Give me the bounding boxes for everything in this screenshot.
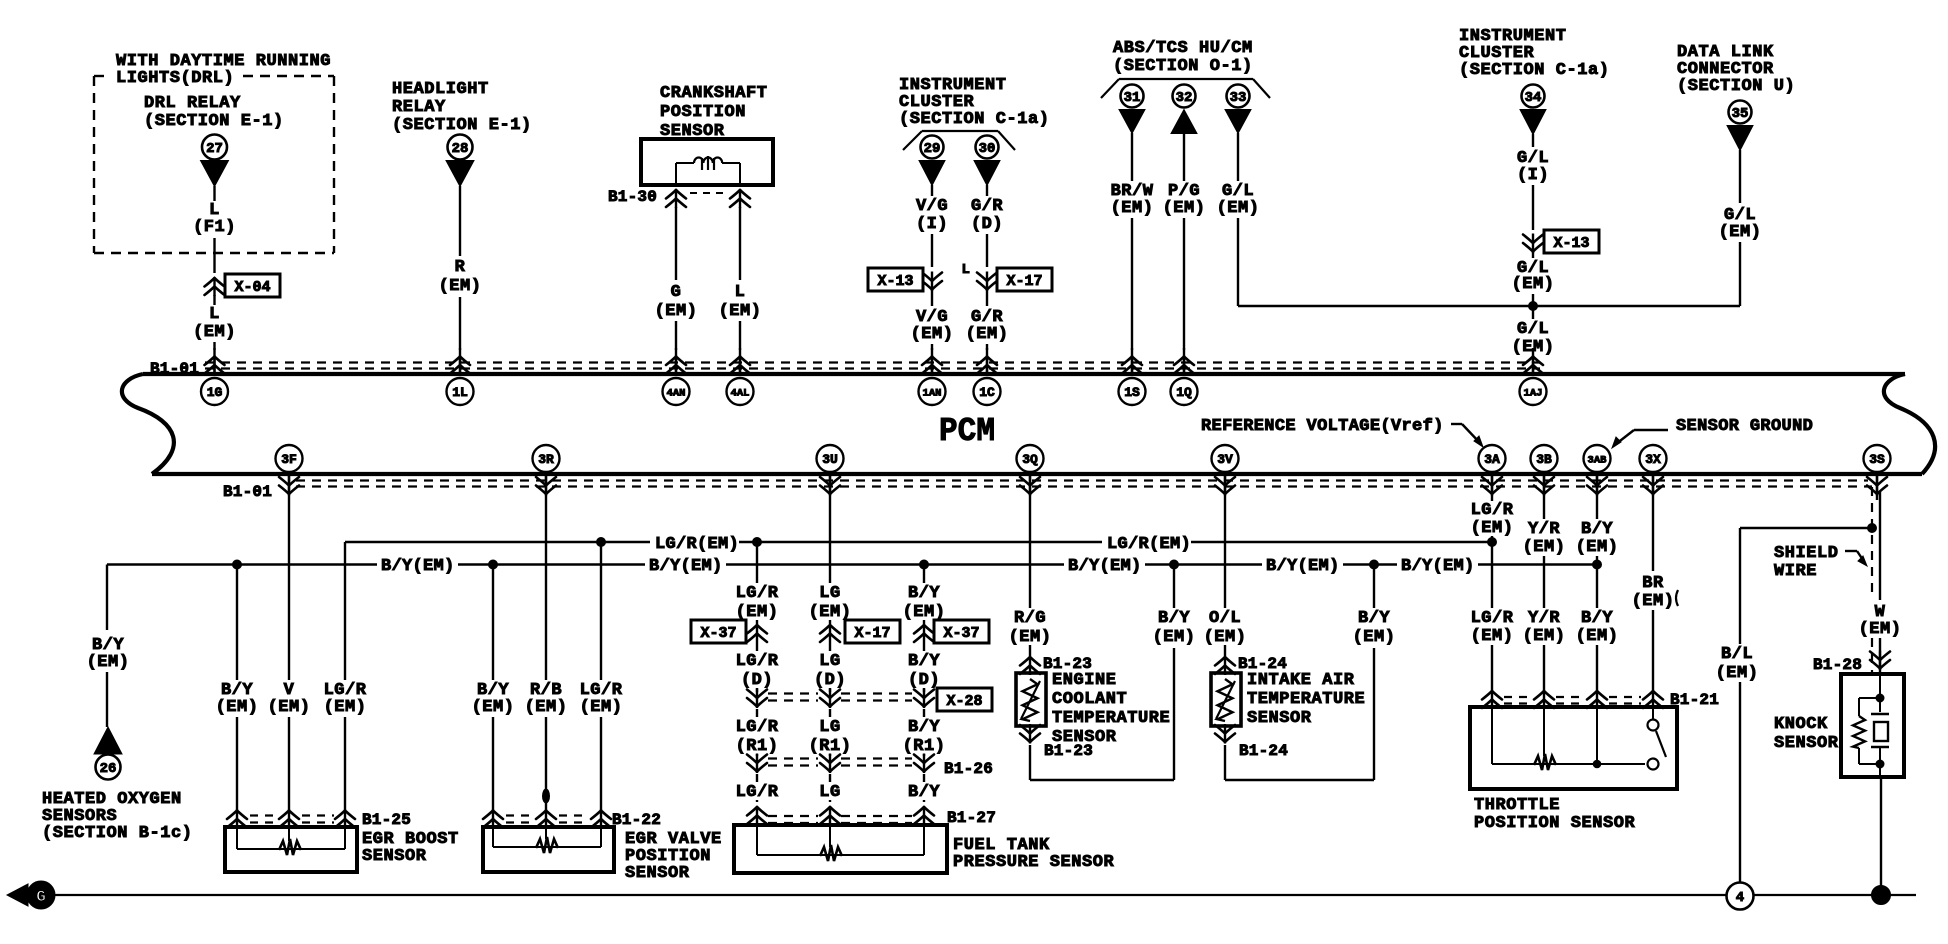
svg-text:B/Y: B/Y [908,652,940,671]
junction B/Y bus to TPS wire 3AB [1593,560,1602,569]
node 3R (PCM pin) [533,445,560,500]
svg-text:B1-26: B1-26 [944,760,993,778]
svg-text:(R1): (R1) [809,737,852,756]
connector X-04 [205,274,281,297]
svg-text:(EM): (EM) [719,302,762,321]
svg-text:REFERENCE VOLTAGE(Vref): REFERENCE VOLTAGE(Vref) [1201,417,1444,436]
svg-text:LG: LG [819,718,840,737]
svg-text:SHIELD: SHIELD [1774,544,1839,563]
svg-text:3A: 3A [1484,452,1500,467]
svg-text:1Q: 1Q [1176,385,1192,400]
intake air temperature sensor box [1211,673,1241,726]
wire G/R(EM) to PCM pin 1C [966,290,1009,350]
junction B/Y bus to EGR valve sensor [489,560,498,569]
svg-text:(EM): (EM) [1204,628,1247,647]
svg-text:(EM): (EM) [525,698,568,717]
junction LG/R bus to EGR valve sensor [597,538,606,547]
svg-text:(SECTION E-1): (SECTION E-1) [392,116,532,135]
wire G(EM) to PCM pin 4AN [655,207,698,350]
svg-text:G/R: G/R [971,197,1003,216]
wire G/L(EM) to PCM pin 1AJ [1512,306,1555,357]
svg-text:R/G: R/G [1014,609,1046,628]
connector B1-21 [1482,690,1719,709]
node 27 (DRL relay terminal) [201,135,229,187]
svg-text:1C: 1C [979,385,995,400]
svg-text:SENSOR: SENSOR [1247,709,1312,728]
svg-text:29: 29 [924,141,941,157]
svg-text:1L: 1L [452,385,468,400]
svg-text:CRANKSHAFT: CRANKSHAFT [660,84,768,103]
svg-text:B/L: B/L [1721,645,1753,664]
wire LG segment into sensor [819,774,840,802]
wire LG/R(R1) segment [736,709,779,756]
svg-text:HEADLIGHT: HEADLIGHT [392,80,489,99]
wire BR(EM) from PCM pin 3X [1632,500,1678,694]
svg-text:(EM): (EM) [1523,627,1566,646]
wire G/L(EM) to junction [1512,252,1555,306]
svg-text:(EM): (EM) [1153,628,1196,647]
junction B/Y bus to fuel tank pressure sensor [920,560,929,569]
svg-text:L: L [735,283,746,302]
svg-text:(F1): (F1) [193,218,236,237]
connector B1-23 (top) [1020,655,1092,675]
wire B/Y(EM) bus to EGR valve position sensor [472,565,515,811]
svg-text:BR: BR [1642,574,1664,593]
svg-text:1AN: 1AN [923,387,942,399]
svg-text:1S: 1S [1124,385,1140,400]
node 1L (PCM pin) [447,348,474,405]
wire LG/R(EM) bus [345,535,1492,554]
wire V/G(EM) to PCM pin 1AN [911,290,954,350]
svg-text:LG/R: LG/R [1471,501,1514,520]
svg-text:26: 26 [100,761,117,777]
connector B1-24 (top) [1215,655,1287,675]
svg-text:B1-23: B1-23 [1044,742,1093,760]
svg-text:(EM): (EM) [324,698,367,717]
connector X-37 (right) [914,620,989,643]
wire B/Y(EM) from bus to fuel tank pressure sensor [903,565,946,625]
svg-text:B1-01: B1-01 [223,483,272,501]
connector B1-30 [608,188,750,208]
svg-text:3B: 3B [1536,452,1552,467]
node 30 (instrument cluster terminal) [974,136,1000,186]
svg-text:(EM): (EM) [1859,620,1902,639]
connector X-13 on V/G wire [868,268,942,291]
node 3B (PCM pin) [1531,445,1558,500]
node 34 (instrument cluster terminal) [1520,85,1546,135]
wire LG/R(EM) from PCM pin 3A [1471,500,1514,694]
svg-text:X-17: X-17 [1006,273,1042,290]
connector B1-24 (bottom) [1215,724,1288,760]
wire B/Y(R1) segment [903,709,946,756]
svg-text:B/Y: B/Y [908,718,940,737]
wire L(EM) to PCM pin 1G [193,295,236,350]
svg-text:(EM): (EM) [1512,338,1555,357]
svg-text:4AL: 4AL [731,387,750,399]
wire B/L(EM) to ground [1716,528,1872,882]
svg-text:ABS/TCS HU/CM: ABS/TCS HU/CM [1113,39,1253,58]
svg-text:B/Y: B/Y [908,584,940,603]
node 3U (PCM pin) [817,445,844,500]
svg-text:LG/R: LG/R [736,652,779,671]
wire B/Y(EM) bus to EGR boost sensor [216,565,259,811]
wire from ECT sensor to B/Y bus [1030,565,1195,781]
wire G/L(I) from 34 [1517,134,1549,230]
junction LG/R bus to fuel tank pressure sensor [753,538,762,547]
svg-text:(EM): (EM) [268,698,311,717]
svg-text:(EM): (EM) [1576,538,1619,557]
svg-text:3R: 3R [538,452,554,467]
svg-text:27: 27 [206,141,223,157]
svg-text:B/Y: B/Y [1158,609,1190,628]
svg-text:(EM): (EM) [1576,627,1619,646]
svg-text:POSITION SENSOR: POSITION SENSOR [1474,814,1636,833]
svg-text:(R1): (R1) [736,737,779,756]
svg-text:(SECTION C-1a): (SECTION C-1a) [899,110,1050,129]
wire B/Y(EM) bus [107,557,1597,576]
ABS/TCS HU/CM (Section O-1) heading [1101,39,1270,98]
svg-text:32: 32 [1176,90,1193,106]
node 3X (PCM pin) [1640,445,1667,500]
instrument cluster (Section C-1a) heading [899,76,1050,150]
svg-text:G/L: G/L [1517,320,1549,339]
connector B1-26 row [747,754,993,779]
headlight relay (Section E-1) [392,80,532,135]
shield wire (dashed) [1868,487,1872,673]
node 26 (heated oxygen sensors) [94,727,122,780]
svg-text:Y/R: Y/R [1528,520,1560,539]
node 3Q (PCM pin) [1017,445,1044,500]
wire R/G(EM) from PCM pin 3Q [1009,500,1052,656]
wire P/G(EM) to PCM pin 1Q [1163,133,1206,350]
svg-text:(SECTION U): (SECTION U) [1677,77,1795,96]
node 3AB (PCM pin) [1584,445,1611,500]
svg-text:(EM): (EM) [1009,628,1052,647]
node SENSOR GROUND callout [1612,417,1813,448]
PCM module outline [122,374,1935,474]
TPS internal potentiometer and idle switch [1492,703,1666,770]
node 3S (PCM pin) [1864,445,1891,500]
svg-text:Y/R: Y/R [1528,609,1560,628]
connector B1-28 [1813,651,1890,675]
svg-text:SENSOR: SENSOR [1774,734,1839,753]
svg-text:WIRE: WIRE [1774,562,1817,581]
svg-text:LG: LG [819,652,840,671]
svg-text:(EM): (EM) [216,698,259,717]
svg-text:3Q: 3Q [1022,452,1038,467]
connector B1-01 (bottom row dashes) [223,481,1868,502]
knock sensor box [1774,674,1904,777]
svg-text:SENSOR GROUND: SENSOR GROUND [1676,417,1813,436]
svg-text:LIGHTS(DRL): LIGHTS(DRL) [116,69,234,88]
node 1C (PCM pin) [974,348,1001,405]
svg-text:G: G [671,283,682,302]
svg-text:(EM): (EM) [966,325,1009,344]
svg-text:3AB: 3AB [1588,454,1608,466]
svg-text:COOLANT: COOLANT [1052,690,1127,709]
wire LG(R1) segment [809,709,852,756]
connector X-28 row [747,688,992,711]
wire LG/R(D) segment [736,643,779,692]
wire LG/R segment into sensor [736,774,779,802]
svg-text:G: G [36,888,46,906]
node 4AL (PCM pin) [727,348,754,405]
junction knock sensor ground [1872,886,1891,905]
intake air temperature sensor label [1247,671,1365,728]
svg-text:L: L [962,262,971,278]
node 33 (ABS/TCS terminal) [1225,85,1251,134]
svg-text:3V: 3V [1217,452,1233,467]
svg-text:LG: LG [819,783,840,802]
wire V(EM) from PCM pin 3F [268,500,311,810]
svg-text:B1-01: B1-01 [150,360,199,378]
svg-text:LG/R: LG/R [736,584,779,603]
node 1S (PCM pin) [1119,348,1146,405]
wire G/R(D) from 30 [971,185,1003,267]
svg-text:(EM): (EM) [193,323,236,342]
svg-text:(I): (I) [1517,166,1549,185]
wire R/B(EM) from PCM pin 3R [525,500,568,810]
svg-text:X-37: X-37 [943,625,979,642]
junction B/Y bus to ECT sensor return [1170,560,1179,569]
svg-text:3S: 3S [1869,452,1885,467]
svg-text:B/Y(EM): B/Y(EM) [1401,557,1475,576]
svg-text:LG: LG [819,584,840,603]
inductive pickup coil inside crankshaft sensor [676,156,740,185]
svg-text:33: 33 [1230,90,1247,106]
svg-text:(R1): (R1) [903,737,946,756]
svg-text:B1-24: B1-24 [1239,742,1288,760]
connector X-37 (left) [691,620,767,643]
svg-text:(SECTION B-1c): (SECTION B-1c) [42,824,193,843]
svg-text:TEMPERATURE: TEMPERATURE [1247,690,1365,709]
svg-text:R: R [455,258,466,277]
svg-text:1G: 1G [207,385,223,400]
connector B1-01 (top row dashes) [150,360,1540,378]
svg-text:X-28: X-28 [946,693,982,710]
svg-text:(EM): (EM) [1523,538,1566,557]
svg-text:KNOCK: KNOCK [1774,715,1828,734]
node 35 (data link connector terminal) [1727,101,1753,151]
instrument cluster (Section C-1a) heading right [1459,27,1610,80]
svg-text:(EM): (EM) [1471,627,1514,646]
svg-text:(EM): (EM) [439,277,482,296]
svg-text:(D): (D) [814,671,846,690]
svg-text:SENSOR: SENSOR [625,864,690,883]
node 28 (headlight relay terminal) [446,135,474,187]
svg-text:L: L [209,305,220,324]
svg-text:(SECTION E-1): (SECTION E-1) [144,112,284,131]
svg-text:(EM): (EM) [87,653,130,672]
svg-text:THROTTLE: THROTTLE [1474,796,1560,815]
junction shield to ground branch [1868,524,1877,533]
svg-text:(EM): (EM) [911,325,954,344]
svg-text:V/G: V/G [916,197,948,216]
svg-text:LG/R: LG/R [736,783,779,802]
wire G/L(EM) from 35 to junction line [1719,150,1762,306]
node 1G (PCM pin) [201,348,228,405]
svg-text:SENSOR: SENSOR [362,847,427,866]
svg-text:X-37: X-37 [700,625,736,642]
connector B1-23 (bottom) [1020,724,1093,760]
svg-text:(EM): (EM) [1217,199,1260,218]
node 3A (PCM pin) [1479,445,1506,500]
EGR boost sensor box [225,827,459,872]
svg-text:B/Y(EM): B/Y(EM) [649,557,723,576]
svg-text:(EM): (EM) [580,698,623,717]
svg-text:3U: 3U [822,452,838,467]
EGR valve position sensor box [483,827,722,883]
svg-text:(EM): (EM) [472,698,515,717]
node 1AN (PCM pin) [919,348,946,405]
wire LG/R(EM) from bus to EGR valve position sensor [580,542,623,810]
wire LG(D) segment [814,643,846,692]
svg-text:(EM): (EM) [655,302,698,321]
connector B1-25 [227,810,411,830]
wire knock sensor to ground junction [1880,779,1882,888]
wire B/Y segment into sensor [908,774,940,802]
svg-text:X-13: X-13 [877,273,913,290]
wire B/Y(D) segment [908,643,940,692]
engine coolant temperature sensor label [1052,671,1170,747]
connector B1-22 [483,810,661,830]
node 4 on ground rail [1727,883,1754,910]
svg-text:(SECTION C-1a): (SECTION C-1a) [1459,61,1610,80]
svg-text:INTAKE AIR: INTAKE AIR [1247,671,1355,690]
svg-text:(EM): (EM) [1471,519,1514,538]
fuel tank pressure sensor internal potentiometer [757,821,924,861]
svg-text:(EM): (EM) [1111,199,1154,218]
svg-text:(EM): (EM) [1632,592,1675,611]
svg-text:LG/R: LG/R [736,718,779,737]
svg-text:B1-25: B1-25 [362,811,411,829]
connector B1-27 row [747,806,996,827]
wire Y/R(EM) from PCM pin 3B [1523,500,1566,694]
svg-text:4: 4 [1736,890,1744,906]
svg-text:4AN: 4AN [667,387,686,399]
wire LG(EM) from PCM pin 3U [809,500,852,624]
svg-text:LG/R(EM): LG/R(EM) [655,535,739,554]
svg-text:30: 30 [979,141,996,157]
wire L(EM) to PCM pin 4AL [719,207,762,350]
wire from IAT sensor to B/Y bus [1225,565,1395,781]
svg-text:LG/R: LG/R [1471,609,1514,628]
svg-text:LG/R(EM): LG/R(EM) [1107,535,1191,554]
svg-text:RELAY: RELAY [392,98,446,117]
shield wire label [1774,544,1867,581]
svg-text:(SECTION O-1): (SECTION O-1) [1113,57,1253,76]
svg-text:(EM): (EM) [1512,275,1555,294]
svg-text:(EM): (EM) [1163,199,1206,218]
svg-text:B1-28: B1-28 [1813,656,1862,674]
svg-text:3F: 3F [281,452,297,467]
wire V/G(I) from 29 [916,185,948,267]
svg-text:X-17: X-17 [854,625,890,642]
svg-text:TEMPERATURE: TEMPERATURE [1052,709,1170,728]
knock sensor internals (resistor + piezo element) [1853,672,1889,779]
junction of G/L wires [1529,302,1538,311]
svg-text:O/L: O/L [1209,609,1241,628]
wire B/Y(EM) to heated oxygen sensors [87,565,130,728]
svg-text:34: 34 [1525,90,1542,106]
svg-text:B/Y(EM): B/Y(EM) [381,557,455,576]
connector X-17 on G/R wire [962,262,1052,291]
svg-text:PCM: PCM [939,413,995,450]
svg-text:3X: 3X [1645,452,1661,467]
crankshaft position sensor [641,84,773,185]
node REFERENCE VOLTAGE(Vref) callout [1201,417,1483,447]
junction B/Y bus to IAT sensor return [1370,560,1379,569]
connector X-13 on G/L wire [1523,230,1599,253]
wire B/Y(EM) from PCM pin 3AB [1576,500,1619,694]
wire BR/W(EM) to PCM pin 1S [1111,133,1154,350]
wire L(F1) from DRL relay [193,186,236,273]
ground symbol G [7,881,55,909]
wire O/L(EM) from PCM pin 3V [1204,500,1247,656]
node 32 (ABS/TCS terminal, arrow up) [1171,85,1197,134]
svg-text:X-04: X-04 [234,279,270,296]
node 3F (PCM pin) [276,445,303,500]
node 3V (PCM pin) [1212,445,1239,500]
svg-text:PRESSURE SENSOR: PRESSURE SENSOR [953,853,1115,872]
node 31 (ABS/TCS terminal) [1119,85,1145,134]
wire LG/R(EM) from bus to EGR boost sensor [324,542,367,810]
EGR valve position sensor internal potentiometer [493,823,601,853]
svg-text:B/Y: B/Y [1358,609,1390,628]
DRL relay (Section E-1), with daytime running lights box [94,52,334,253]
svg-text:(EM): (EM) [1353,628,1396,647]
node 4AN (PCM pin) [663,348,690,405]
wire W(EM) from PCM pin 3S [1859,492,1902,676]
wire R(EM) to PCM pin 1L [439,186,482,350]
heated oxygen sensors label [42,790,193,843]
throttle position sensor box [1470,707,1677,833]
svg-text:B1-30: B1-30 [608,188,657,206]
wire LG/R(EM) from bus to fuel tank pressure sensor [736,542,779,624]
svg-text:(D): (D) [741,671,773,690]
svg-text:B/Y(EM): B/Y(EM) [1068,557,1142,576]
svg-text:1AJ: 1AJ [1524,387,1543,399]
junction LG/R bus to TPS wire 3A [1488,538,1497,547]
svg-text:POSITION: POSITION [660,103,746,122]
svg-text:28: 28 [452,141,469,157]
svg-text:B/Y(EM): B/Y(EM) [1266,557,1340,576]
svg-text:DRL RELAY: DRL RELAY [144,94,241,113]
svg-text:(EM): (EM) [1716,664,1759,683]
svg-text:B1-27: B1-27 [947,809,996,827]
svg-text:31: 31 [1124,90,1141,106]
svg-text:B/Y: B/Y [908,783,940,802]
connector X-17 (middle) [820,620,900,643]
EGR boost sensor internal potentiometer [237,823,345,855]
svg-text:ENGINE: ENGINE [1052,671,1117,690]
svg-text:B/Y: B/Y [1581,609,1613,628]
node 1AJ (PCM pin) [1520,348,1547,405]
svg-text:35: 35 [1732,106,1749,122]
junction B/Y bus to EGR boost sensor [233,560,242,569]
node 29 (instrument cluster terminal) [919,136,945,186]
svg-text:(EM): (EM) [1719,223,1762,242]
data link connector (Section U) heading [1677,43,1795,96]
fuel tank pressure sensor box [734,825,1115,873]
svg-text:(I): (I) [916,215,948,234]
engine coolant temperature sensor box [1016,673,1046,726]
svg-text:B/Y: B/Y [1581,520,1613,539]
node 1Q (PCM pin) [1171,348,1198,405]
svg-text:(D): (D) [908,671,940,690]
svg-text:B1-22: B1-22 [612,811,661,829]
svg-text:(D): (D) [971,215,1003,234]
